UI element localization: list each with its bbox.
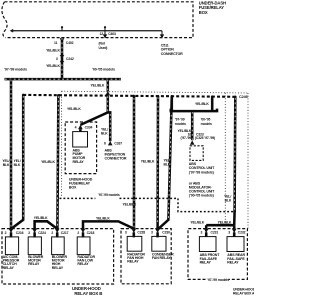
svg-text:RELAY: RELAY — [127, 260, 139, 264]
wire: branch bar to C224 — [34, 216, 57, 229]
svg-text:YEL/BLK: YEL/BLK — [91, 83, 105, 87]
svg-text:3: 3 — [228, 231, 230, 235]
svg-text:C218: C218 — [87, 231, 95, 235]
svg-text:BLK: BLK — [225, 199, 232, 203]
svg-text:CONNECTOR: CONNECTOR — [161, 52, 183, 56]
wire: branch to ABS inspection connector — [101, 112, 110, 141]
connector C228 — [125, 229, 145, 238]
ABS control unit (dashed component box) — [189, 146, 215, 198]
svg-text:YEL/BLK: YEL/BLK — [41, 160, 55, 164]
wire: '97-'99 feed drop to merge bar — [171, 96, 174, 110]
blower motor high relay — [52, 237, 68, 270]
junction dots on distribution run — [22, 94, 237, 98]
svg-text:6: 6 — [104, 142, 106, 146]
svg-text:YEL/BLK: YEL/BLK — [67, 107, 81, 111]
ABS rear fail-safe relay — [227, 237, 245, 265]
svg-text:(C325 ’97-’99): (C325 ’97-’99) — [195, 136, 215, 140]
ABS front fail-safe relay — [199, 237, 220, 265]
svg-text:YEL/BLK: YEL/BLK — [46, 64, 60, 68]
svg-text:(’97-’99 models): (’97-’99 models) — [189, 170, 215, 174]
svg-text:’00-’05 models: ’00-’05 models — [92, 68, 115, 72]
svg-text:3: 3 — [56, 57, 58, 61]
svg-text:RELAY BOX B: RELAY BOX B — [74, 291, 102, 296]
svg-text:2: 2 — [77, 231, 79, 235]
under-hood relay box middle section (dashed enclosure) — [121, 229, 171, 284]
svg-text:RELAY: RELAY — [227, 261, 239, 265]
svg-text:C334: C334 — [85, 125, 93, 129]
under-hood fuse/relay box (dashed) — [65, 122, 96, 190]
connector C218 — [77, 229, 94, 238]
svg-text:C242: C242 — [66, 57, 74, 61]
svg-text:’97-’99 models: ’97-’99 models — [4, 68, 27, 72]
svg-text:3: 3 — [201, 231, 203, 235]
wire: right drop ('00-'05) to under-hood box — [91, 79, 111, 95]
svg-text:BOX: BOX — [199, 10, 208, 15]
connector C402 pin 11 — [54, 38, 74, 45]
svg-text:(’00-’05 models): (’00-’05 models) — [189, 194, 215, 198]
wire: trunk x=134 down to C228 — [133, 96, 136, 229]
node: model split bar — [4, 68, 121, 80]
svg-text:C228: C228 — [137, 231, 145, 235]
svg-text:RELAY BOX A: RELAY BOX A — [233, 291, 254, 295]
svg-text:’97-’99 models: ’97-’99 models — [98, 193, 120, 197]
svg-text:C403: C403 — [108, 32, 116, 36]
under-dash fuse/relay box (dashed enclosure) — [2, 2, 193, 38]
node: bar feeding C218 from C228 node — [83, 217, 134, 230]
svg-text:models: models — [175, 122, 186, 126]
node: bar feeding ABS fail-safe relays — [190, 221, 234, 229]
svg-text:YEL/BLK: YEL/BLK — [34, 216, 48, 220]
svg-text:C402: C402 — [66, 41, 74, 45]
connector C216 — [5, 229, 24, 238]
svg-text:YEL/BLK: YEL/BLK — [141, 160, 155, 164]
wire: '00-'05 feed drop to merge bar — [195, 97, 212, 111]
svg-text:BLK: BLK — [164, 163, 171, 167]
wire: trunk merging into C230 (diagonal) — [158, 96, 172, 229]
svg-text:RELAY: RELAY — [73, 160, 85, 164]
connector C337 pin 6 (ABS inspection connector) — [104, 141, 127, 161]
svg-text:RELAY: RELAY — [77, 262, 89, 266]
svg-text:YEL/BLK: YEL/BLK — [190, 221, 204, 225]
svg-text:BLK: BLK — [101, 132, 108, 136]
svg-text:(’97-’99: (’97-’99 — [180, 136, 191, 140]
svg-text:12: 12 — [99, 32, 103, 36]
wire: drop to C511 — [160, 31, 164, 39]
wire: dashed YEL/BLK distribution run to C246 — [23, 95, 247, 99]
svg-text:C230: C230 — [162, 231, 170, 235]
svg-text:2: 2 — [51, 231, 53, 235]
svg-text:C232: C232 — [238, 231, 246, 235]
svg-text:3: 3 — [125, 231, 127, 235]
node: merge bar for ABS control unit feed — [171, 109, 217, 126]
svg-text:3: 3 — [151, 231, 153, 235]
svg-text:C246: C246 — [239, 95, 248, 99]
node: terminal 12 stub — [104, 26, 106, 31]
svg-text:RELAY: RELAY — [28, 262, 40, 266]
ABS pump motor relay — [73, 132, 88, 164]
svg-text:2: 2 — [5, 231, 7, 235]
connector C242 pin 3 — [46, 55, 74, 68]
under-hood relay box B (dashed enclosure) — [2, 229, 114, 296]
connector C334 pin 4 — [75, 125, 93, 132]
wire: feed to ABS pump motor relay — [80, 95, 107, 125]
connector C217 — [51, 229, 68, 238]
svg-text:11: 11 — [54, 41, 58, 45]
svg-text:BLK: BLK — [14, 163, 21, 167]
svg-text:YEL/BLK: YEL/BLK — [46, 49, 60, 53]
A/C compressor clutch relay — [3, 237, 20, 270]
radiator fan high relay — [127, 236, 145, 263]
connector C323 — [190, 140, 195, 144]
svg-text:C216: C216 — [16, 231, 24, 235]
connector C230 — [151, 229, 170, 238]
wire: trunk from junction x=22.6 merging into C216 — [11, 95, 23, 229]
svg-text:BLK: BLK — [3, 163, 10, 167]
wire: stem to ABS control unit — [178, 111, 215, 140]
svg-text:2: 2 — [28, 231, 30, 235]
wire: trunk x=57.2 down to C217 — [41, 95, 58, 229]
svg-text:BOX: BOX — [69, 186, 77, 190]
svg-text:RELAY: RELAY — [200, 261, 212, 265]
radiator fan low relay — [77, 237, 95, 266]
wire: YEL/BLK trunk from C402 — [46, 38, 62, 80]
svg-text:YEL/BLK: YEL/BLK — [96, 217, 110, 221]
svg-text:C231: C231 — [211, 231, 219, 235]
under-hood fuse/relay box outline (dotted) — [62, 91, 248, 228]
connector C231 — [201, 229, 219, 237]
wire: trunk from C246 end down right side — [224, 97, 235, 225]
svg-text:C337: C337 — [114, 142, 122, 146]
svg-text:YEL/BLK: YEL/BLK — [123, 203, 137, 207]
connector C403 (Not Used) — [99, 31, 117, 50]
label: C511 OPTION CONNECTOR — [161, 43, 183, 56]
wire: internal bus of under-dash box — [11, 29, 162, 32]
svg-text:’97-’99 models: ’97-’99 models — [207, 278, 229, 282]
svg-text:RELAY: RELAY — [52, 266, 64, 270]
connector C224 — [28, 229, 46, 238]
svg-text:C217: C217 — [61, 231, 69, 235]
label: UNDER-DASH FUSE/RELAY BOX — [199, 0, 226, 14]
wire: dashed '97-'99 models branch — [60, 193, 236, 213]
svg-text:RELAY: RELAY — [3, 266, 15, 270]
wire: left trunk ('97-'99) down to C216 — [2, 79, 11, 229]
node: terminal 11 stub — [61, 26, 63, 31]
svg-text:FAN RELAY: FAN RELAY — [152, 256, 172, 260]
wire: trunk to C230 (straight) — [141, 96, 158, 229]
under-hood ABS relay box (dashed enclosure) — [188, 229, 256, 296]
svg-text:C224: C224 — [38, 231, 46, 235]
svg-text:YEL/BLK: YEL/BLK — [218, 221, 232, 225]
condenser fan relay — [152, 236, 174, 260]
blower motor relay — [28, 237, 44, 266]
svg-text:CONNECTOR: CONNECTOR — [105, 157, 127, 161]
svg-text:4: 4 — [75, 125, 77, 129]
connector C232 — [228, 229, 245, 237]
svg-text:models: models — [201, 122, 212, 126]
svg-text:Used): Used) — [99, 46, 108, 50]
svg-text:YEL/BLK: YEL/BLK — [195, 102, 209, 106]
